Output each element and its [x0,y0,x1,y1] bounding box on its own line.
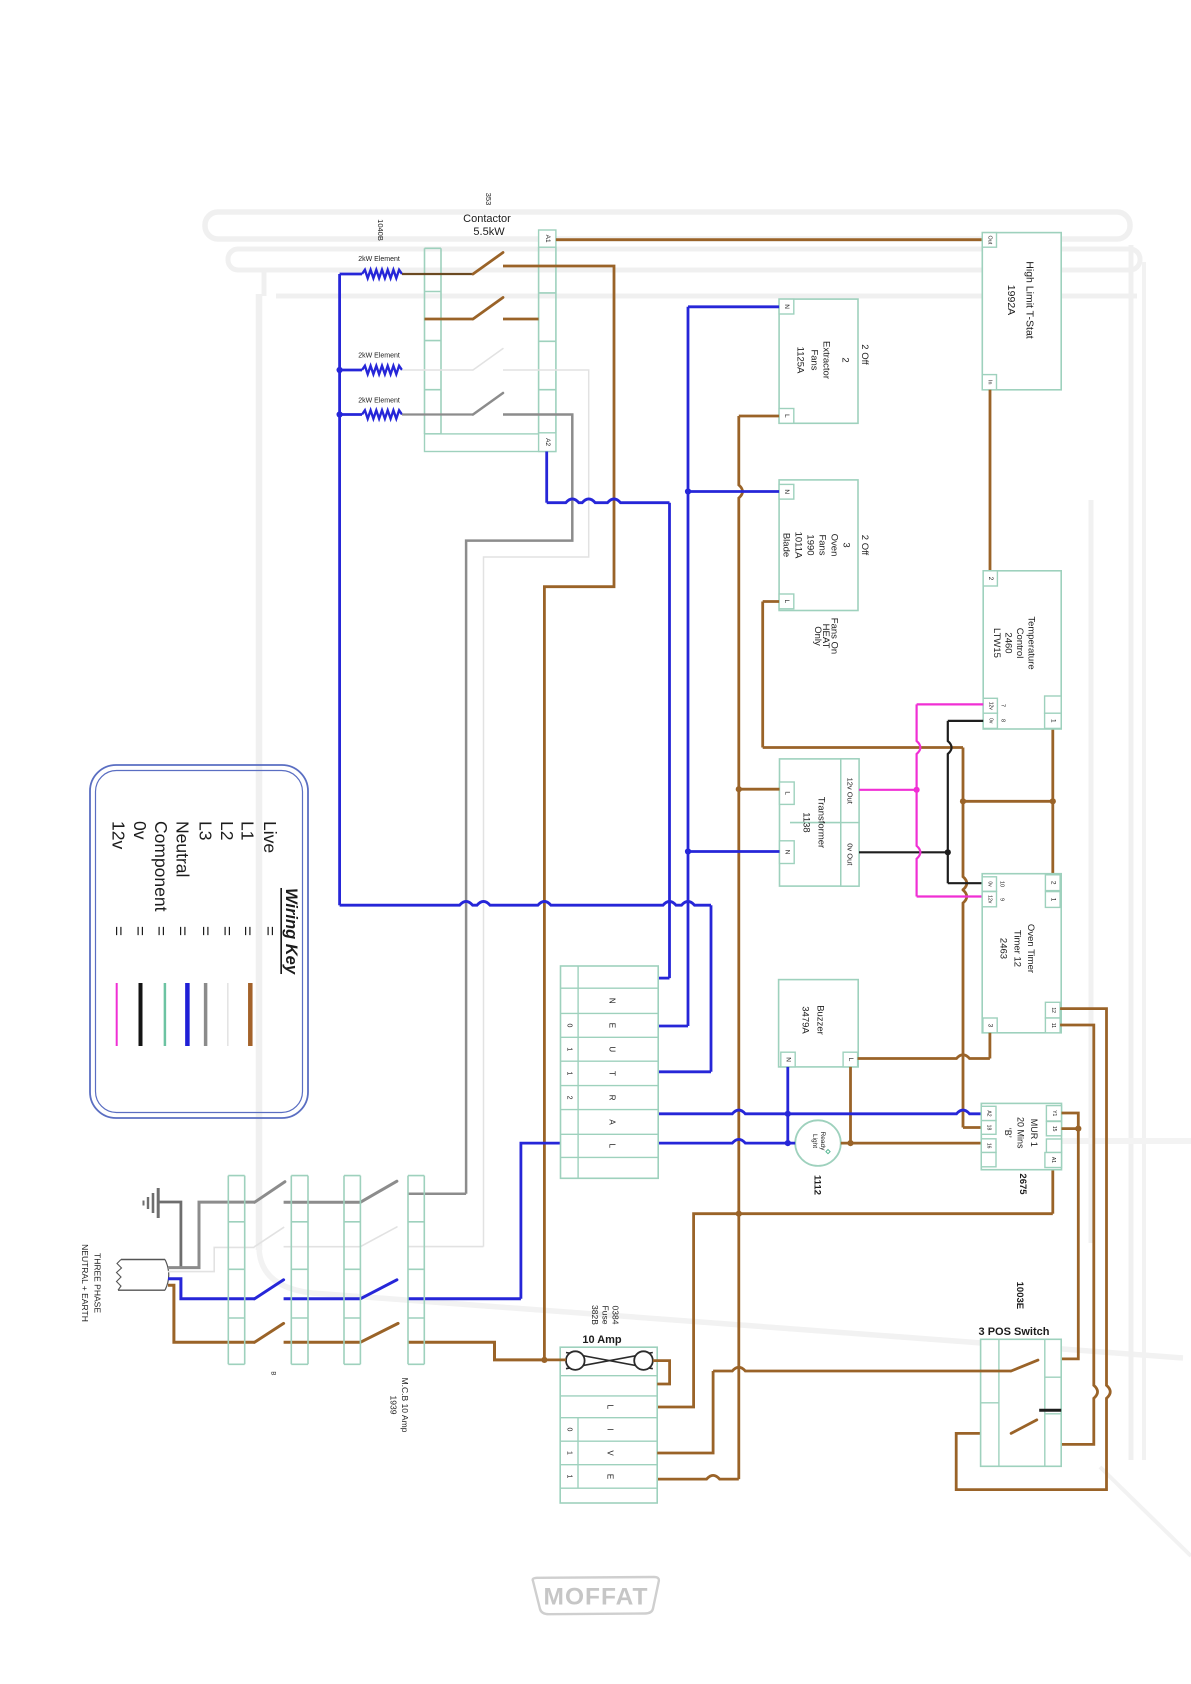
svg-text:Blade: Blade [781,533,792,557]
svg-text:1125A: 1125A [795,347,806,374]
fuse symbol [566,1351,653,1370]
pin 12v Out [841,759,859,823]
svg-text:1040B: 1040B [376,219,385,241]
wire supply neutral (blue) [168,1279,255,1299]
svg-text:2kW Element: 2kW Element [358,353,400,360]
pin 3 [983,1018,997,1033]
svg-text:Live: Live [260,821,280,853]
svg-text:1011A: 1011A [793,532,804,559]
svg-text:2675: 2675 [1017,1173,1028,1195]
wire neutral row L left to MCB (blue) [521,1143,561,1299]
svg-text:1939: 1939 [389,1396,399,1415]
legend line Live (brown) [248,983,253,1046]
svg-text:1990: 1990 [805,534,816,555]
svg-text:=: = [109,926,128,936]
svg-text:Timer 12: Timer 12 [1011,930,1022,967]
wire live feed branch to MUR A1 [739,1212,1053,1215]
svg-text:N: N [608,998,617,1004]
wire bank link N [284,1297,361,1300]
svg-text:0v: 0v [986,881,992,887]
svg-text:Control: Control [1014,628,1025,659]
wire transformer L from live feed [739,788,780,791]
svg-text:Ready: Ready [819,1132,826,1152]
neutral spine (blue) [687,307,690,1026]
wire pole1 out to fuse [503,266,614,1360]
wire temp 0v (black) [948,720,983,722]
svg-text:L: L [783,791,790,795]
wire oven fans N to neutral spine [688,490,779,493]
svg-text:11: 11 [1050,1023,1056,1028]
pin L [780,782,795,804]
svg-text:A2: A2 [544,438,551,446]
wire neutral row L to ready light (blue) [658,1139,795,1143]
MCB bank1 pole L2 blade [255,1227,284,1246]
wire buzzer L down to ready light net [849,1067,852,1143]
pin 2 [1045,875,1060,891]
svg-text:12: 12 [1050,1007,1056,1013]
pin N [780,841,795,864]
faint oven outline background [205,212,1191,1556]
pin L [779,409,794,424]
svg-text:5.5kW: 5.5kW [473,226,505,238]
svg-text:Out: Out [986,236,992,245]
wire temp 12v (magenta) [917,703,984,705]
svg-text:U: U [608,1046,617,1052]
svg-text:353: 353 [484,193,493,206]
svg-text:0v: 0v [130,821,150,840]
svg-text:3: 3 [841,542,852,547]
svg-text:L: L [783,600,790,604]
pin 12v (9) [982,892,996,907]
svg-text:0: 0 [566,1023,573,1027]
svg-text:3 POS Switch: 3 POS Switch [979,1326,1050,1338]
pin In [982,375,996,390]
MCB bank2 pole L3 blade [360,1181,397,1202]
svg-text:2: 2 [1049,881,1056,885]
switch 3 POS Switch 1003E [979,1282,1062,1467]
svg-text:V: V [606,1450,615,1456]
svg-text:N: N [785,1057,792,1062]
wire LIVE row V to 3POS pole1 input [657,1371,713,1453]
svg-text:15: 15 [1051,1126,1057,1132]
wire neutral row A to MUR A2 (blue) [658,1110,981,1114]
svg-text:20 Mins: 20 Mins [1016,1117,1026,1149]
svg-text:0v Out: 0v Out [845,843,854,866]
pin N [779,299,794,314]
svg-text:12v: 12v [108,821,128,849]
wire L out to fuse [408,1342,545,1360]
svg-text:3479A: 3479A [800,1006,811,1034]
svg-text:2: 2 [840,357,851,362]
legend line L3 (gray) [204,983,208,1046]
wire fuse output stub [653,1361,670,1384]
wire L2 out to contactor [408,1246,484,1248]
pin 12 [1045,1002,1060,1018]
contactor 353 5.5kW [376,193,556,452]
svg-text:382B: 382B [590,1305,600,1325]
svg-text:MOFFAT: MOFFAT [544,1584,649,1611]
MCB bank1 pole N blade [255,1280,284,1299]
svg-text:1: 1 [1049,898,1056,902]
wire supply live (brown) [168,1285,255,1342]
svg-text:0v: 0v [987,718,993,724]
svg-text:1992A: 1992A [1005,285,1017,315]
svg-text:1138: 1138 [801,812,812,832]
svg-text:B: B [270,1371,276,1375]
pin N [781,1052,795,1067]
pin 0v (10) [982,877,996,892]
svg-text:M.C.B 10 Amp: M.C.B 10 Amp [400,1378,410,1433]
svg-text:I: I [606,1428,615,1430]
svg-text:Oven: Oven [829,534,840,557]
wire A1 to High Limit (brown) [556,238,982,241]
svg-text:12v: 12v [986,895,992,904]
legend line L2 (light) [227,983,229,1046]
motor Extractor Fans 1125A [779,299,870,423]
contactor pole 1 blade (Live) [473,253,503,275]
svg-text:Only: Only [812,626,823,646]
pin 0v (8) [983,713,997,728]
legend Wiring Key [90,765,308,1118]
svg-text:2: 2 [987,577,994,581]
svg-text:E: E [608,1023,617,1028]
svg-text:10: 10 [999,881,1005,887]
svg-text:=: = [217,926,236,936]
wire N out to neutral strip [408,1297,521,1300]
wire ready light right to MUR 16 [841,1142,982,1145]
pin 2 [983,571,997,586]
svg-text:2kW Element: 2kW Element [358,398,400,405]
wire earth conductor [158,1202,181,1267]
svg-text:2kW Element: 2kW Element [358,256,400,263]
svg-text:1: 1 [566,1475,573,1479]
wire pole4 out (L3 gray) [466,415,572,1194]
svg-text:L: L [608,1144,617,1149]
svg-text:Wiring Key: Wiring Key [282,888,300,975]
wire L3 out to contactor [408,1193,466,1196]
logo MOFFAT badge [533,1577,659,1614]
svg-text:16: 16 [986,1143,992,1149]
svg-text:In: In [986,380,992,385]
3POS pole 2 blade [1011,1420,1037,1434]
svg-text:Fuse: Fuse [601,1306,611,1325]
svg-text:Temperature: Temperature [1026,616,1037,669]
fuse 0384 382B 10 Amp [582,1305,622,1346]
pin Y1 [1046,1106,1061,1121]
svg-text:L2: L2 [217,821,237,840]
svg-text:=: = [196,926,215,936]
svg-text:2: 2 [566,1096,573,1100]
svg-text:1003E: 1003E [1014,1282,1025,1309]
svg-text:NEUTRAL + EARTH: NEUTRAL + EARTH [80,1244,90,1322]
wire bank link L2 [284,1246,361,1248]
buzzer 3479A [779,980,859,1067]
pin 18 [981,1121,996,1135]
svg-text:N: N [783,489,790,494]
svg-text:2460: 2460 [1003,632,1014,653]
wire oven fans L to controls (brown B) [763,746,963,749]
wire live feed to LIVE strip row E [657,1475,739,1479]
svg-text:A1: A1 [544,235,551,243]
contactor pole 4 blade (L3) [473,393,503,415]
svg-text:1: 1 [566,1047,573,1051]
pin 11 [1045,1018,1060,1033]
svg-text:Extractor: Extractor [821,341,832,379]
pin 1 [1045,892,1060,908]
wire fuse input junction [544,1359,566,1362]
wire In to Temperature Control pin 2 [989,390,992,571]
wire transformer N from neutral spine [688,850,780,853]
wire live feed branch to LIVE strip row L [657,1214,739,1407]
wire supply gray phase (L3) [168,1202,255,1268]
pin A1 [1045,1153,1062,1168]
breaker M.C.B 10 Amp 1939 [344,1176,424,1433]
contactor pin A1 [539,230,556,247]
svg-text:N: N [783,850,790,855]
motor Oven Fans 1990 1011A Blade [779,480,870,611]
wire bank link L [284,1341,361,1344]
wire magenta to timer 12v [917,895,983,897]
svg-text:T: T [608,1071,617,1076]
svg-text:0384: 0384 [611,1306,621,1325]
svg-text:0: 0 [566,1428,573,1432]
pin 1 [1045,696,1062,713]
svg-text:Fans: Fans [817,534,828,555]
svg-text:L1: L1 [238,821,258,840]
contactor pin A2 [539,433,556,452]
MCB bank2 pole L2 blade [360,1227,397,1247]
svg-text:=: = [130,926,149,936]
svg-text:=: = [260,926,279,936]
svg-text:9: 9 [999,898,1005,901]
pin N [779,484,794,499]
legend line 0v (black) [139,983,143,1046]
svg-text:Buzzer: Buzzer [815,1005,826,1035]
label Fans On HEAT Only [812,618,839,654]
svg-text:Fans: Fans [809,349,820,370]
svg-text:A2: A2 [986,1110,992,1116]
lamp Ready Light 1112 [795,1120,841,1195]
contactor pole 3 blade (L2) [473,349,503,371]
svg-text:L: L [606,1405,615,1410]
3POS pole 1 blade [1011,1360,1038,1371]
svg-text:Component: Component [151,821,171,912]
svg-text:=: = [238,926,257,936]
wire timer pin11 to 3POS pole2 output [1045,1025,1098,1444]
legend line 12v (magenta) [116,983,118,1046]
legend line Neutral (blue) [185,983,190,1046]
transformer 1138 [780,759,860,886]
wire A2 to neutral strip (blue) [547,499,670,503]
svg-text:1: 1 [566,1071,573,1075]
wire black to timer 0v [948,882,983,884]
wire extractor L brown main live feed [739,415,779,418]
svg-text:2 Off: 2 Off [859,535,870,556]
svg-text:12v Out: 12v Out [845,778,854,805]
wire bank link L3 [284,1201,361,1204]
pin L [779,594,794,609]
svg-text:L3: L3 [195,821,215,840]
cable entry three phase [117,1260,169,1291]
svg-text:MUR 1: MUR 1 [1029,1119,1039,1147]
svg-text:1: 1 [566,1451,573,1455]
svg-text:2463: 2463 [998,938,1009,959]
svg-text:Neutral: Neutral [173,821,193,877]
label THREE PHASE NEUTRAL + EARTH [80,1244,103,1322]
resistor 2kW Element 3 [340,398,473,419]
svg-text:R: R [608,1095,617,1101]
wire buzzer N down (blue) [786,1067,789,1143]
legend line Component (teal) [164,983,167,1046]
svg-text:2 Off: 2 Off [859,344,870,365]
svg-text:L: L [783,414,790,418]
svg-text:N: N [783,304,790,309]
wire 12v Out (magenta) [859,789,917,791]
isolator bank (B) [228,1176,308,1376]
svg-text:A1: A1 [1050,1157,1056,1163]
earth symbol [144,1188,159,1218]
svg-text:THREE PHASE: THREE PHASE [93,1253,103,1313]
pin 16 [981,1139,996,1153]
svg-text:1: 1 [1049,719,1056,723]
3POS middle position mark [1039,1409,1061,1412]
svg-text:18: 18 [986,1125,992,1131]
svg-text:Transformer: Transformer [816,797,827,848]
svg-text:High Limit T-Stat: High Limit T-Stat [1023,261,1035,338]
wire extractor N to neutral spine [688,305,779,308]
pin 12v (7) [983,698,997,713]
thermostat High Limit T-Stat 1992A [982,233,1061,390]
controller Temperature Control 2460 LTW15 [983,571,1061,729]
pin L [843,1052,858,1067]
svg-text:E: E [606,1474,615,1479]
svg-text:=: = [152,926,171,936]
relay MUR 1 20 Mins B 2675 [981,1103,1061,1195]
svg-text:Oven Timer: Oven Timer [1025,924,1036,973]
MCB bank1 pole L3 blade [255,1182,285,1203]
wire supply light phase (L2) [168,1247,255,1271]
wire buzzer L to timer pin3 [858,1055,990,1059]
svg-text:10 Amp: 10 Amp [582,1334,622,1346]
wire MUR Y1/15 to 3POS pole1 output [1061,1113,1078,1359]
svg-text:3: 3 [987,1024,994,1028]
resistor 2kW Element 2 [340,353,473,375]
svg-text:12v: 12v [987,702,993,711]
svg-text:‘B’: ‘B’ [1003,1128,1013,1138]
pin Out [982,233,996,248]
pin 0v Out [841,823,859,887]
MCB bank2 pole N blade [360,1280,397,1299]
svg-text:Contactor: Contactor [463,213,511,225]
wire element supply spine (blue) [338,274,341,905]
terminal strip NEUTRAL 0112 [561,966,659,1178]
contactor pole 2 blade [425,298,539,320]
pin A2 [981,1106,996,1120]
wire brown B to Temp pin1 / Timer pin2 [963,800,1053,803]
wire long neutral bus (blue) [340,901,711,905]
wire 0v Out (black) [859,851,948,853]
svg-text:7: 7 [1000,704,1006,707]
svg-text:L: L [847,1058,854,1062]
svg-text:LTW15: LTW15 [991,628,1002,658]
MCB bank1 pole L blade [255,1323,284,1342]
svg-text:=: = [173,926,192,936]
MCB bank2 pole L blade [360,1323,398,1342]
wire pole3 out (L2 light) [484,370,589,1247]
svg-text:Light: Light [811,1134,818,1148]
terminal strip LIVE 011 [560,1347,657,1503]
pin 15 [1046,1122,1061,1136]
timer Oven Timer Timer 12 2463 [982,874,1061,1033]
resistor 2kW Element 1 [340,256,473,278]
svg-text:1112: 1112 [812,1175,823,1195]
wire timer pin12 to 3POS pole2 input [956,1009,1110,1490]
svg-text:Y1: Y1 [1051,1110,1057,1116]
svg-text:A: A [608,1119,617,1125]
svg-text:8: 8 [1000,719,1006,722]
